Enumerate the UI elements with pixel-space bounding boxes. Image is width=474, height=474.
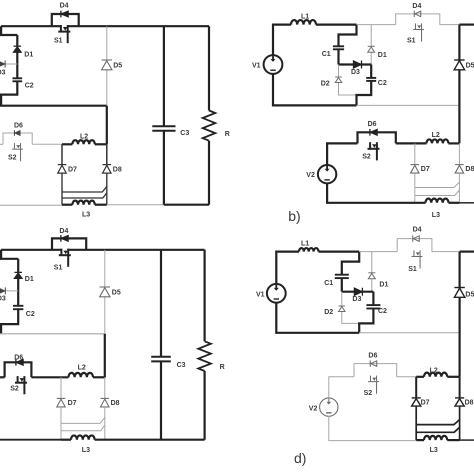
circuit a: wire D1 to C2 <box>16 52 18 78</box>
circuit a: wire mid rail down to L2 <box>106 106 108 145</box>
circuit b: diode D2 <box>335 76 342 78</box>
svg-text:D8: D8 <box>111 400 120 407</box>
svg-text:D3: D3 <box>0 296 6 303</box>
circuit d: source V1 <box>267 284 286 303</box>
svg-text:V2: V2 <box>306 172 315 179</box>
circuit b: wire D8 branch <box>458 143 460 164</box>
svg-text:S1: S1 <box>54 38 63 45</box>
circuit d: wire D7 down <box>415 406 417 440</box>
circuit c: wire L3 left lead <box>61 439 71 441</box>
circuit b: wire mid rail thin segment <box>357 104 460 106</box>
circuit d: wire mid rail thin segment <box>359 332 459 334</box>
svg-text:D6: D6 <box>368 121 377 128</box>
svg-text:D2: D2 <box>324 309 333 316</box>
svg-text:D3: D3 <box>0 70 6 77</box>
svg-text:D6: D6 <box>14 354 23 361</box>
circuit d: capacitor C2 <box>366 304 380 306</box>
svg-text:D5: D5 <box>112 289 121 296</box>
circuit d: wire rail thin to S1 <box>359 251 397 253</box>
circuit a: diode D4 <box>60 11 62 18</box>
svg-text:L1: L1 <box>301 240 309 247</box>
circuit d: capacitor C1 <box>335 274 349 276</box>
svg-text:R: R <box>220 364 225 371</box>
circuit b: wire S1 to D5 branch <box>440 24 460 26</box>
circuit c: capacitor C3 branch bottom <box>160 361 162 439</box>
svg-text:S1: S1 <box>408 266 417 273</box>
circuit d: diode D1 <box>368 272 375 274</box>
svg-text:D3: D3 <box>352 296 361 303</box>
circuit d: wire D8 down <box>459 406 461 440</box>
circuit b: transistor S2 <box>370 142 377 145</box>
circuit d: transistor S2 <box>370 375 376 378</box>
circuit b: wire D2 branch <box>339 65 357 96</box>
svg-text:S2: S2 <box>364 390 373 397</box>
circuit b: transistor S1 <box>415 23 421 26</box>
circuit d: diode D2 <box>339 305 346 307</box>
circuit c: diode D1 <box>14 271 22 273</box>
circuit a: diode D1 <box>14 45 21 47</box>
circuit d: diode D3 row <box>342 291 374 293</box>
circuit b: inductor L1 <box>291 20 316 25</box>
svg-text:D4: D4 <box>413 226 422 233</box>
svg-text:S1: S1 <box>407 37 416 44</box>
circuit d: wire rail output stub <box>460 251 474 253</box>
svg-text:S1: S1 <box>54 264 63 271</box>
circuit b: wire rail output stub <box>459 24 474 26</box>
svg-text:L2: L2 <box>430 368 438 375</box>
circuit d: wire D2 branch <box>342 292 359 324</box>
svg-text:C2: C2 <box>378 308 387 315</box>
circuit b: wire D7 branch <box>414 143 416 164</box>
circuit c: wire C2 down and left to edge <box>1 309 18 334</box>
circuit b: wire D1 branch <box>370 25 372 65</box>
circuit c: diode D4 <box>60 235 62 242</box>
svg-text:L2: L2 <box>78 364 86 371</box>
circuit d: wire L3 right lead <box>447 439 459 441</box>
circuit c: switch block S1 bypass rect <box>52 238 86 249</box>
circuit a: diode D7 <box>58 164 67 166</box>
svg-text:D5: D5 <box>113 63 122 70</box>
circuit c: resistor R branch bottom <box>204 371 206 440</box>
svg-text:L3: L3 <box>82 212 90 219</box>
circuit c: wire mid rail (thin) <box>0 333 105 335</box>
circuit c: switch block S2 bypass rect <box>5 362 32 377</box>
circuit d: diode D5 branch <box>459 252 461 377</box>
circuit b: diode D7 <box>411 164 420 166</box>
circuit a: inductor L2 <box>72 140 94 144</box>
circuit d: transistor S1 <box>414 250 420 253</box>
circuit b: wire V1 bottom rail <box>273 73 357 105</box>
circuit b: capacitor C2 branch <box>370 65 372 78</box>
circuit c: inductor L2 <box>69 373 94 377</box>
circuit a: wire D7-D8 link with jog <box>62 187 107 192</box>
circuit d: wire V1 top to rail <box>276 252 299 285</box>
circuit c: diode D7 <box>57 397 66 399</box>
circuit a: inductor L3 <box>72 201 94 205</box>
circuit a: diode D3 row (cut at left edge) <box>0 63 17 65</box>
circuit d: source V2 (inactive) <box>320 398 338 416</box>
circuit a: wire D7 branch <box>61 144 63 164</box>
svg-text:D7: D7 <box>68 166 77 173</box>
circuit b: wire rail L1 to step <box>316 24 357 26</box>
circuit a: wire mid rail <box>0 105 107 107</box>
circuit d: diode D8 <box>455 397 464 399</box>
circuit c: transistor S2 <box>18 376 25 379</box>
circuit a: wire D8 down to bottom <box>106 173 108 205</box>
circuit a: wire L3 riser link with jog <box>62 193 107 198</box>
svg-text:D3: D3 <box>351 69 360 76</box>
circuit d: inductor L3 <box>424 436 447 440</box>
circuit d: diode D5 <box>454 287 464 289</box>
circuit a: resistor R branch bottom <box>208 141 210 205</box>
circuit b: wire bottom rail output stub <box>459 202 474 204</box>
circuit a: wire S2 to L2 <box>32 143 62 145</box>
svg-text:L3: L3 <box>430 447 438 454</box>
circuit c: diode D5 <box>100 286 110 288</box>
svg-text:S2: S2 <box>8 155 17 162</box>
circuit c: wire S2 stub to edge <box>0 376 5 378</box>
circuit a: transistor S1 <box>61 25 68 28</box>
circuit a: wire top rail <box>1 25 209 27</box>
circuit c: wire D8 down <box>104 407 106 440</box>
circuit d: diode D4 <box>412 235 414 242</box>
circuit b: wire L3 right lead <box>449 202 460 204</box>
circuit b: switch block S1 bypass rect <box>396 14 440 25</box>
circuit c: resistor R branch top <box>204 250 206 341</box>
circuit b: wire S2 to L2 <box>396 142 427 144</box>
svg-text:S2: S2 <box>10 386 19 393</box>
circuit a: wire V2 return (thin, to edge) <box>0 204 62 206</box>
svg-text:D2: D2 <box>321 80 330 87</box>
circuit d: diode D3 <box>361 288 363 296</box>
circuit d: diode D6 <box>369 360 371 367</box>
circuit d: wire bottom rail output stub <box>460 439 474 441</box>
svg-text:C3: C3 <box>177 362 186 369</box>
circuit a: diode D6 <box>13 130 15 136</box>
circuit c: wire mid rail down to L2 <box>104 334 106 378</box>
svg-text:b): b) <box>288 208 300 224</box>
circuit c: wire D7 down <box>60 407 62 440</box>
circuit a: wire S2 stub to edge <box>0 143 3 145</box>
circuit d: wire L3 riser link with jog <box>416 427 459 432</box>
circuit b: wire rail thin to S1 <box>357 24 396 26</box>
circuit b: wire D7 down <box>414 173 416 203</box>
circuit c: wire top rail <box>1 249 205 251</box>
circuit b: diode D6 <box>369 129 371 136</box>
svg-text:V2: V2 <box>309 406 318 413</box>
circuit c: node step from rail to network <box>1 250 18 259</box>
svg-text:D1: D1 <box>379 281 388 288</box>
circuit b: capacitor C1 <box>333 45 344 47</box>
circuit a: capacitor C3 <box>152 125 175 127</box>
svg-text:L1: L1 <box>301 13 309 20</box>
circuit c: capacitor C3 branch top <box>160 250 162 357</box>
circuit b: source V1 <box>264 55 283 74</box>
circuit d: wire D7-D8 link with jog <box>416 420 459 425</box>
svg-text:C1: C1 <box>324 280 333 287</box>
circuit d: wire V2 bottom return (thin) <box>329 416 416 441</box>
circuit a: wire C2 down and left to edge <box>1 81 17 105</box>
svg-text:D7: D7 <box>421 166 430 173</box>
svg-text:C2: C2 <box>378 80 387 87</box>
circuit b: wire C2 down-left-down to bottom rail <box>357 81 372 106</box>
circuit a: capacitor C2 <box>13 77 23 79</box>
circuit d: switch block S2 bypass rect <box>354 364 397 377</box>
circuit d: wire C2 down-left-down to bottom rail <box>359 309 373 333</box>
svg-text:D8: D8 <box>465 399 474 406</box>
circuit a: capacitor C3 branch bottom <box>163 131 165 205</box>
circuit c: diode D8 <box>101 397 110 399</box>
svg-text:D1: D1 <box>378 52 387 59</box>
circuit d: wire V2 top to S2 wire <box>329 377 354 399</box>
svg-text:V1: V1 <box>252 62 261 69</box>
circuit d: wire step down-left to C1 <box>342 252 359 275</box>
circuit d: wire V1 bottom rail <box>276 302 359 333</box>
circuit c: wire D8 branch <box>104 377 106 398</box>
circuit d: wire S1 to D5 branch <box>432 251 460 253</box>
circuit c: capacitor C3 <box>151 356 171 358</box>
svg-text:D1: D1 <box>25 276 34 283</box>
svg-text:D5: D5 <box>465 291 474 298</box>
circuit a: capacitor C3 branch top <box>163 26 165 126</box>
circuit b: wire C1 to D3 row <box>337 49 339 64</box>
svg-text:C2: C2 <box>25 82 34 89</box>
circuit a: wire bottom rail thin segment <box>107 204 164 206</box>
circuit b: wire V2 top to S2 wire <box>327 143 357 165</box>
circuit b: diode D5 branch <box>458 25 460 144</box>
circuit a: wire L3 right lead <box>95 204 107 206</box>
circuit b: wire L2 right lead <box>448 142 459 144</box>
circuit b: diode D8 <box>455 164 464 166</box>
circuit a: diode D3 <box>4 61 6 68</box>
circuit b: wire D8 down <box>458 173 460 203</box>
circuit a: diode D5 branch <box>106 26 108 106</box>
svg-text:D6: D6 <box>368 352 377 359</box>
circuit c: wire D7-D8 link with jog <box>61 418 105 424</box>
circuit a: wire D8 branch <box>106 144 108 164</box>
circuit b: source V2 <box>318 165 336 183</box>
circuit d: inductor L2 <box>424 373 447 377</box>
circuit b: inductor L2 <box>426 139 448 143</box>
circuit b: diode D5 <box>454 59 464 61</box>
svg-text:D1: D1 <box>24 52 33 59</box>
svg-text:D6: D6 <box>14 123 23 130</box>
svg-text:d): d) <box>294 450 306 466</box>
circuit c: wire L2 right lead <box>93 376 105 378</box>
circuit c: resistor R <box>198 341 211 371</box>
circuit a: resistor R branch top <box>208 26 210 110</box>
circuit b: wire D7-D8 link with jog <box>415 182 460 188</box>
circuit d: wire D8 branch <box>459 377 461 398</box>
svg-text:D4: D4 <box>60 3 69 10</box>
circuit d: switch block S1 bypass rect <box>397 239 432 252</box>
circuit b: diode D1 <box>368 45 375 47</box>
circuit d: wire D7 node to L2 <box>416 376 424 378</box>
circuit a: wire D1 branch top <box>16 35 18 47</box>
circuit c: inductor L3 <box>71 435 95 439</box>
circuit b: diode D4 <box>413 11 415 18</box>
svg-text:C1: C1 <box>322 51 331 58</box>
circuit d: wire L3 left lead <box>416 439 424 441</box>
circuit b: wire step down-left to C1 <box>339 25 357 47</box>
circuit d: inductor L1 <box>299 248 319 252</box>
svg-text:D7: D7 <box>421 399 430 406</box>
circuit b: diode D3 row <box>339 63 372 65</box>
svg-text:L3: L3 <box>82 447 90 454</box>
circuit b: wire V1 top to rail <box>273 25 291 56</box>
circuit a: wire L3 left lead <box>62 204 72 206</box>
circuit d: wire L2 right lead <box>447 376 459 378</box>
circuit c: wire S2 to L2 <box>31 376 68 378</box>
circuit c: wire bottom rail <box>95 439 205 441</box>
circuit c: diode D3 row (cut at left edge) <box>0 290 18 292</box>
circuit b: capacitor C2 <box>366 77 376 79</box>
svg-text:D4: D4 <box>412 3 421 10</box>
svg-text:D8: D8 <box>465 166 474 173</box>
circuit c: wire V2 return <box>0 439 61 441</box>
circuit c: diode D5 branch <box>104 250 106 334</box>
circuit d: wire rail L1 to step <box>319 251 360 253</box>
circuit b: diode D3 <box>361 61 363 69</box>
svg-text:D8: D8 <box>113 166 122 173</box>
circuit c: transistor S1 <box>61 248 68 251</box>
circuit a: switch block S2 bypass rect <box>3 133 32 144</box>
svg-text:S2: S2 <box>362 154 371 161</box>
circuit c: wire D1 branch top <box>17 259 19 273</box>
svg-text:D4: D4 <box>59 228 68 235</box>
circuit a: wire L2 left lead <box>62 143 72 145</box>
circuit c: wire L3 riser link with jog <box>61 425 105 431</box>
circuit d: wire S2 to D7 node <box>397 376 417 378</box>
circuit a: transistor S2 <box>14 143 20 146</box>
circuit b: inductor L3 <box>426 199 449 203</box>
svg-text:L2: L2 <box>80 134 88 141</box>
circuit c: capacitor C2 <box>13 305 23 307</box>
circuit d: wire C1 to D3 row <box>341 278 343 292</box>
svg-text:C3: C3 <box>180 130 189 137</box>
circuit b: wire V2 bottom to L3 <box>327 183 425 203</box>
circuit d: wire D7 branch <box>415 377 417 398</box>
circuit a: diode D8 <box>103 164 112 166</box>
circuit b: switch block S2 bypass rect <box>358 132 396 143</box>
circuit a: wire D7 down to bottom <box>61 173 63 205</box>
svg-text:R: R <box>225 131 230 138</box>
circuit b: wire L3 riser link with jog <box>415 190 460 196</box>
circuit c: wire D7 branch <box>60 377 62 398</box>
svg-text:L3: L3 <box>432 212 440 219</box>
circuit c: diode D3 <box>4 287 6 294</box>
svg-text:D5: D5 <box>466 63 474 70</box>
circuit a: wire bottom rail output segment <box>164 204 209 206</box>
svg-text:L2: L2 <box>432 132 440 139</box>
circuit a: wire L2 right lead <box>95 143 107 145</box>
circuit a: switch block S1 bypass rect <box>52 14 79 26</box>
circuit a: node step from rail to network <box>1 26 17 35</box>
circuit d: capacitor C2 branch <box>372 292 374 305</box>
svg-text:V1: V1 <box>256 292 265 299</box>
svg-text:D7: D7 <box>68 400 77 407</box>
svg-text:C2: C2 <box>26 311 35 318</box>
circuit c: diode D6 <box>15 359 17 366</box>
circuit d: wire D1 branch <box>371 252 373 292</box>
circuit a: diode D5 <box>102 59 112 61</box>
circuit c: wire D1 to C2 <box>17 278 19 305</box>
circuit d: diode D7 <box>412 397 421 399</box>
circuit a: resistor R <box>203 111 216 141</box>
